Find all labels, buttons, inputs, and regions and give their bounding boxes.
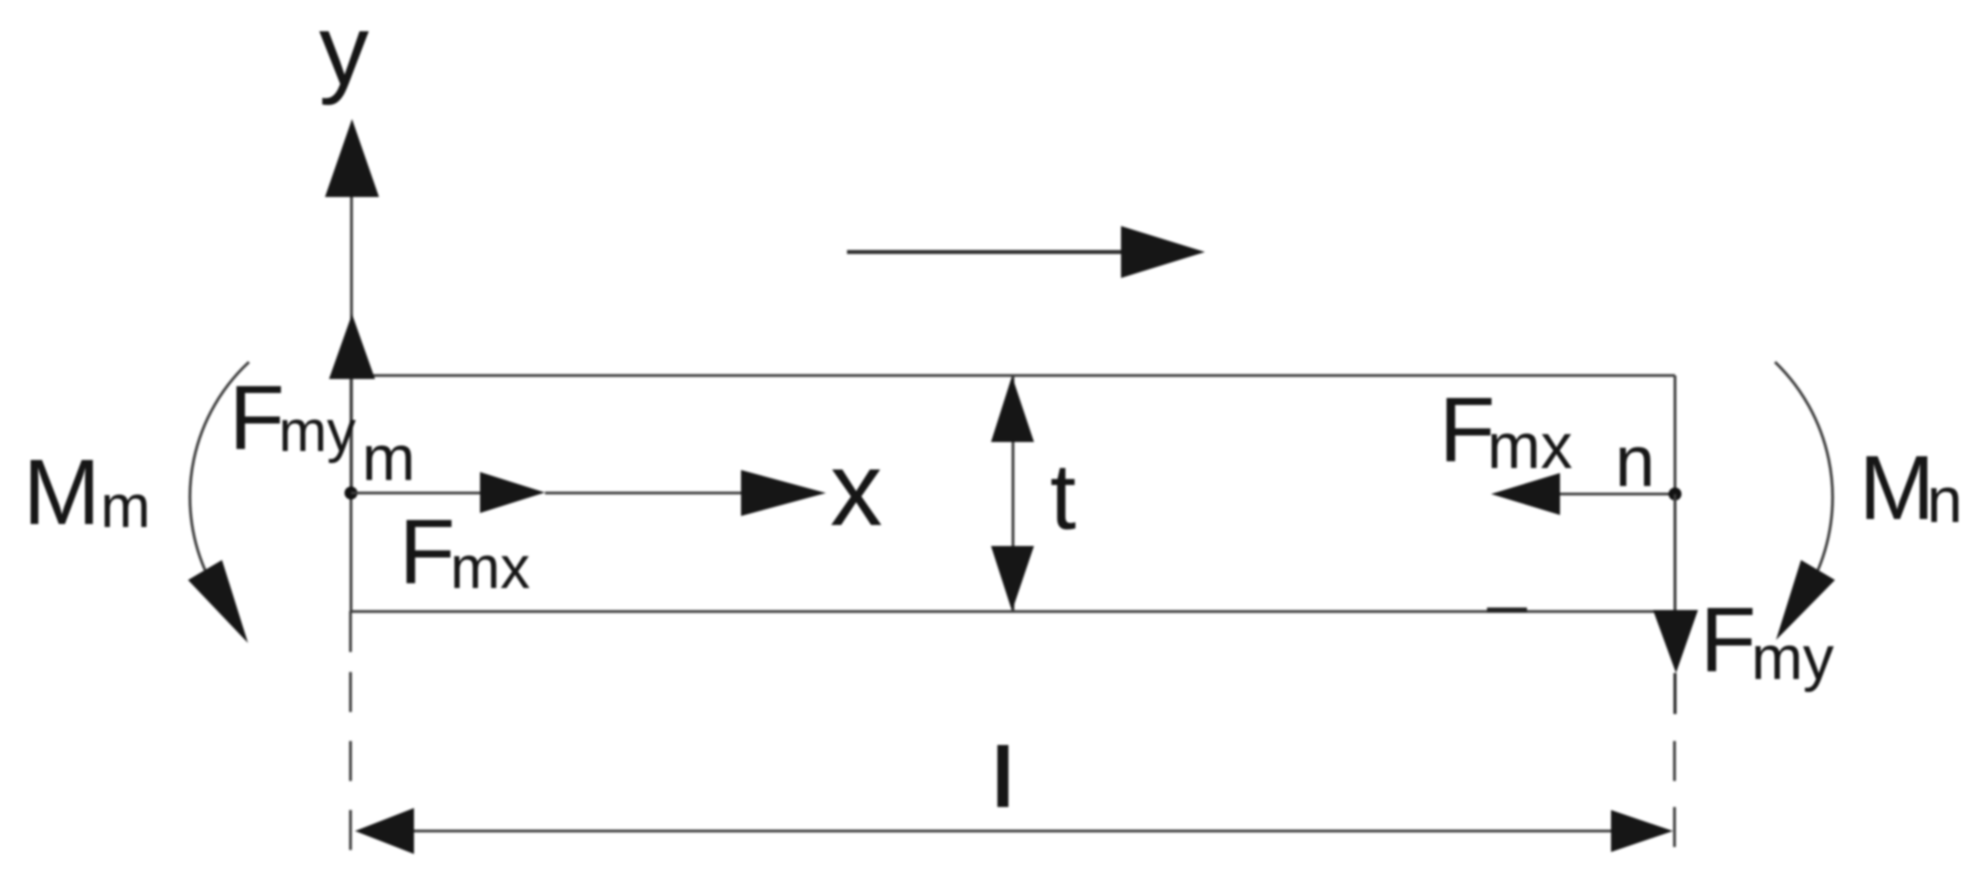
force Fny down arrow (1674, 494, 1677, 614)
length dimension line (410, 830, 1615, 833)
svg-text:m: m (362, 422, 415, 494)
force Fmx arrowhead (480, 472, 545, 513)
node n dot (1669, 488, 1682, 501)
force Fmy up arrowhead at node m (329, 314, 375, 379)
moment Mm arrowhead (188, 560, 248, 643)
moment Mn arrowhead (1776, 560, 1835, 640)
right extension dashed line (1673, 741, 1676, 852)
svg-text:x: x (830, 431, 883, 548)
top translation arrow line (847, 250, 1124, 254)
x-axis arrowhead (741, 470, 826, 516)
svg-text:t: t (1050, 444, 1076, 549)
node m dot (345, 487, 358, 500)
left extension dashed line (349, 611, 352, 652)
Fnx arrowhead (1491, 473, 1560, 515)
moment Mn arc (1775, 362, 1833, 570)
thick mark on bottom edge (1487, 608, 1527, 613)
t upper arrowhead (991, 376, 1034, 442)
x-axis line segment (545, 492, 743, 495)
moment Mm arc (190, 362, 249, 570)
top translation arrowhead (1121, 226, 1205, 278)
svg-text:y: y (319, 0, 369, 106)
length right arrowhead (1611, 810, 1673, 852)
length left arrowhead (355, 808, 414, 854)
Fny arrow tail (1673, 673, 1676, 714)
svg-text:l: l (994, 733, 1012, 822)
y-axis arrowhead (325, 119, 379, 197)
svg-text:n: n (1615, 422, 1655, 502)
beam outline rectangle (351, 376, 1675, 612)
force Fnx arrow at node n (1558, 493, 1675, 496)
x-axis / Fmx arrow chain (351, 492, 482, 495)
t lower arrowhead (991, 546, 1034, 611)
thickness dimension t line (1012, 376, 1015, 611)
Fny arrowhead (1653, 610, 1698, 673)
y-axis line (350, 190, 353, 493)
